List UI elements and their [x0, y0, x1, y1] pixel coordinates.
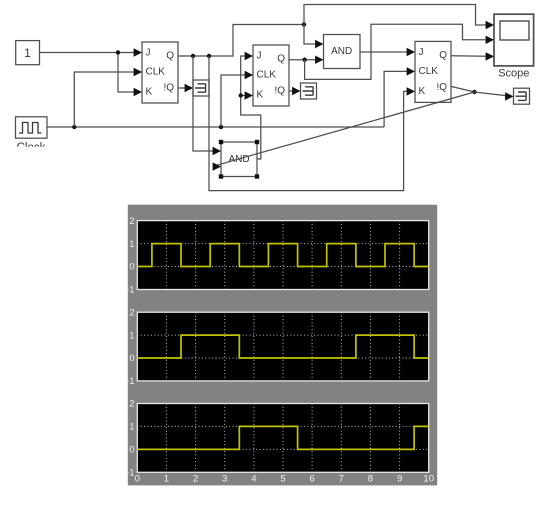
wire: clock to CLK1 [74, 72, 134, 127]
junction Q2 [302, 58, 306, 62]
JK flip-flop U3 [415, 41, 451, 102]
arrow J1 [134, 48, 142, 56]
svg-text:1: 1 [129, 330, 134, 341]
svg-text:K: K [257, 90, 264, 101]
wire: constant to J1 [40, 52, 135, 54]
svg-text:Q: Q [277, 54, 285, 65]
arrow K3 [407, 87, 415, 95]
arrow terminator T1 [185, 84, 193, 92]
svg-text:8: 8 [368, 474, 373, 485]
svg-text:7: 7 [339, 474, 344, 485]
scope subplot 3: plot area [137, 404, 428, 473]
scope block [494, 14, 534, 79]
svg-text:2: 2 [129, 216, 134, 227]
svg-text:0: 0 [135, 474, 140, 485]
JK flip-flop U1 [142, 42, 178, 103]
terminator T1 [193, 80, 209, 96]
arrow K2 [245, 91, 253, 99]
scope subplot 1: signal trace [137, 244, 428, 267]
svg-text:5: 5 [280, 474, 285, 485]
arrow AND2 input 1 [213, 147, 221, 155]
svg-text:J: J [146, 48, 151, 59]
arrow AND2 input 2 (diagonal) [213, 162, 221, 170]
svg-text:9: 9 [397, 474, 402, 485]
wire: AND2 output loop to J2 [241, 56, 261, 159]
wire: Q1 top route to scope input 1 [304, 5, 487, 26]
arrow AND1 input 2 [315, 56, 323, 64]
wire: !Q2 to terminator T2 [289, 90, 293, 92]
wire: !Q3 to node N1 [451, 86, 475, 92]
arrow scope input 3 [486, 52, 494, 60]
wire: Q2 route to scope input 2 [305, 24, 487, 79]
junction clock at x221 [219, 125, 223, 129]
arrow scope input 1 [486, 21, 494, 29]
junction Q1 at x209 [207, 54, 211, 58]
junction Q1 at x193 [191, 54, 195, 58]
arrow CLK1 [134, 68, 142, 76]
scope subplot 3: y axis labels [126, 399, 134, 479]
scope subplot 2: y axis labels [126, 307, 134, 387]
svg-text:4: 4 [251, 474, 256, 485]
scope subplot 1: y axis labels [126, 216, 134, 296]
AND gate A1 [324, 35, 361, 69]
svg-text:2: 2 [129, 399, 134, 410]
svg-text:3: 3 [222, 474, 227, 485]
terminator T3 [514, 88, 530, 104]
arrow scope input 2 [486, 36, 494, 44]
svg-text:Q: Q [439, 50, 447, 61]
wire: clock to CLK2 [221, 75, 246, 127]
constant block 1 [16, 41, 40, 65]
clock source block [16, 117, 48, 138]
svg-text:J: J [257, 51, 262, 62]
svg-text:6: 6 [309, 474, 314, 485]
svg-text:-1: -1 [126, 468, 134, 479]
arrow CLK2 [245, 71, 253, 79]
junction K2 branch [239, 93, 243, 97]
svg-text:2: 2 [193, 474, 198, 485]
wire: branch constant to K1 [118, 53, 135, 93]
JK flip-flop U2 [253, 45, 289, 106]
arrow CLK3 [407, 67, 415, 75]
arrow terminator T3 [505, 92, 513, 100]
arrow J3 [407, 48, 415, 56]
scope display panel background [128, 205, 437, 486]
svg-text:!Q: !Q [436, 82, 447, 93]
wire: Q1 under-route to K3 [209, 56, 408, 191]
svg-text:!Q: !Q [274, 86, 285, 97]
svg-text:CLK: CLK [419, 66, 439, 77]
svg-text:AND: AND [331, 46, 352, 57]
wire: Q3 to scope input 3 [451, 55, 487, 58]
scope subplot 2: signal trace [137, 335, 428, 358]
svg-text:10: 10 [423, 474, 434, 485]
svg-text:CLK: CLK [257, 70, 277, 81]
svg-text:0: 0 [129, 262, 134, 273]
arrow AND1 input 1 [315, 40, 323, 48]
svg-text:!Q: !Q [163, 83, 174, 94]
svg-text:Q: Q [166, 51, 174, 62]
svg-text:CLK: CLK [146, 67, 166, 78]
wire: Q1 to AND1 input 1 [304, 25, 316, 45]
arrow terminator T2 [292, 87, 300, 95]
svg-text:Scope: Scope [498, 68, 529, 80]
wire: node N1 to terminator T3 [475, 92, 507, 96]
wire: !Q1 to terminator T1 [178, 87, 186, 89]
scope subplot 3: signal trace [137, 426, 428, 449]
scope subplot 1: plot area [137, 221, 428, 290]
wire: AND1 output to J3 [360, 51, 408, 53]
wire: AND2 loop branch to K2 [241, 95, 246, 97]
wire: Q1 output with over-route to node Q1T [178, 25, 304, 57]
svg-text:-1: -1 [126, 376, 134, 387]
scope subplot 2: plot area [137, 312, 428, 381]
svg-text:K: K [146, 87, 153, 98]
wire: clock output line [47, 126, 384, 128]
svg-text:-1: -1 [126, 285, 134, 296]
arrow K1 [134, 88, 142, 96]
svg-text:1: 1 [24, 46, 31, 60]
junction node N1 [472, 90, 476, 94]
junction constant branch [116, 50, 120, 54]
terminator T2 [301, 83, 317, 99]
svg-text:K: K [419, 86, 426, 97]
selection handles of AND gate A2 [219, 140, 259, 179]
junction Q1 top route [302, 22, 306, 26]
svg-text:0: 0 [129, 353, 134, 364]
junction clock at x74 [72, 125, 76, 129]
arrow J2 [245, 52, 253, 60]
svg-text:0: 0 [129, 445, 134, 456]
wire: Q1 branch to AND2 input 1 [193, 56, 214, 151]
svg-text:1: 1 [129, 422, 134, 433]
svg-text:J: J [419, 47, 424, 58]
wire: clock to CLK3 [384, 71, 407, 127]
scope subplot 3: x axis labels [135, 474, 434, 485]
wire: Q2 to AND1 input 2 [289, 59, 316, 61]
svg-text:1: 1 [129, 239, 134, 250]
svg-text:1: 1 [164, 474, 169, 485]
wire: diagonal node N1 to AND2 input 2 [215, 92, 475, 166]
AND gate A2 (selected) [221, 142, 257, 177]
svg-text:2: 2 [129, 307, 134, 318]
